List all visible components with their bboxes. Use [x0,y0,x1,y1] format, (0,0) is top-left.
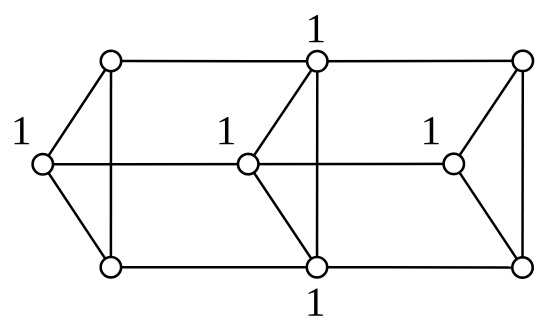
node MC (middle-center vertex) [238,154,258,174]
node BR (bottom-right vertex) [512,257,532,277]
wire edge TM-TR [317,60,523,63]
wire edge BL-BM [111,266,317,269]
wire edge ML-MC [43,163,248,166]
wire edge MR-BR [454,164,523,268]
node BM (bottom-middle vertex) [307,257,327,277]
node BL (bottom-left vertex) [101,257,121,277]
svg-text:1: 1 [305,5,326,51]
svg-text:1: 1 [421,107,442,153]
wire edge TL-BL [110,61,113,267]
wire edge BM-BR [317,266,523,269]
wire edge TM-BM [316,61,319,267]
node ML (middle-left vertex) [33,154,53,174]
svg-text:1: 1 [305,278,326,324]
svg-text:1: 1 [11,107,32,153]
wire edge MC-TM [248,61,317,164]
wire edge MC-BM [248,164,317,267]
svg-text:1: 1 [216,107,237,153]
wire edge MR-TR [454,61,523,164]
node TR (top-right vertex) [513,51,533,71]
wire edge TL-TM [111,60,317,63]
wire edge TR-BR [521,61,524,268]
wire edge ML-BL [43,164,111,267]
wire edge MC-MR [248,163,454,166]
node TL (top-left vertex) [101,51,121,71]
wire edge ML-TL [43,61,111,164]
node MR (middle-right vertex) [444,154,464,174]
node TM (top-middle vertex) [307,51,327,71]
